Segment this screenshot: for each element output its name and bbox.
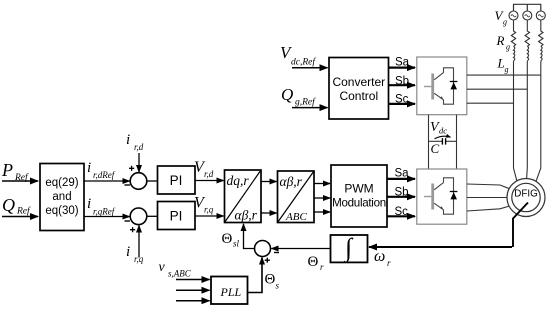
wire Sb grid gate arrow [389,84,416,86]
svg-text:r,d: r,d [204,169,214,179]
svg-text:r,dRef: r,dRef [93,170,116,180]
wire V_dc,Ref input arrow [292,67,328,69]
resistor R_g phase A [511,20,515,47]
label v_s,ABC [159,260,192,279]
svg-text:i: i [126,132,130,148]
wire v_s,ABC phase C arrow [176,300,210,302]
IGBT Q1 with diode D1 (grid-side) [424,68,457,104]
svg-text:v: v [159,260,166,275]
svg-text:dc,Ref: dc,Ref [291,57,316,68]
block Converter Control [329,58,389,120]
wire i_r,d down into summing junction S1 [138,153,140,172]
svg-text:sl: sl [233,239,240,249]
svg-text:i: i [126,244,130,260]
svg-text:eq(30): eq(30) [45,205,78,217]
grid bus top [514,4,541,11]
block PWM Modulation [331,165,387,227]
wire omega_r into integrator [369,246,512,248]
inductor L_g phase C [541,47,542,62]
wire PI2 to dq,r block [195,215,224,217]
svg-text:r,d: r,d [134,142,144,152]
svg-text:Ref: Ref [16,206,31,217]
converter U1 grid-side box [417,57,467,115]
wire Sb rotor gate arrow [387,196,415,198]
wire Sc grid gate arrow [389,103,416,105]
svg-text:ω: ω [374,248,385,265]
wire i_r,q up into summing junction S2 [138,226,140,258]
label Q_g,Ref [281,85,316,108]
wire Q_Ref input arrow [2,216,38,218]
wire i_r,qRef to summing junction [84,216,130,218]
block PLL [211,277,248,305]
inductor L_g phase A [514,47,515,62]
svg-text:s,ABC: s,ABC [168,269,192,279]
wire ABC to PWM row3 [314,211,330,213]
wire Q_g,Ref input arrow [292,107,328,109]
svg-text:Q: Q [281,85,293,104]
label i_r,q [126,244,144,264]
block dq,r / ab,r transform [225,170,262,223]
block ab,r / ABC transform [278,171,315,223]
wire P_Ref input arrow [2,180,38,182]
svg-text:C: C [431,141,440,156]
AC source G3 [536,11,545,20]
resistor R_g phase B [525,20,529,47]
wire rotor converter phase C to DFIG [467,206,510,211]
svg-text:g: g [503,18,507,27]
block PI2 [158,202,196,230]
label V_g [495,8,508,27]
block integrator [331,233,368,263]
label R_g [496,33,511,52]
AC source G2 [523,11,532,20]
wire v_s,ABC phase B arrow [176,289,210,291]
svg-text:g,Ref: g,Ref [295,97,316,108]
svg-text:PWM: PWM [344,182,373,196]
label V_r,d [194,159,214,179]
label i_r,qRef [87,196,116,217]
svg-text:ABC: ABC [285,211,307,223]
svg-text:αβ,r: αβ,r [280,174,303,189]
wire ABC to PWM row2 [314,197,330,199]
wire dq,r to ab,r row2 [261,212,277,214]
svg-text:Sa: Sa [395,168,410,180]
svg-text:and: and [52,191,71,203]
summing junction S2 [125,208,147,232]
svg-text:Control: Control [339,89,378,103]
wire v_s,ABC phase A arrow [176,279,210,281]
svg-text:Θ: Θ [222,231,233,247]
svg-text:αβ,r: αβ,r [235,208,258,223]
svg-text:PLL: PLL [220,285,242,299]
label V_dc [430,120,447,136]
svg-text:g: g [506,43,510,52]
svg-text:DFIG: DFIG [514,189,537,200]
wire grid converter phase B to grid [467,88,528,90]
svg-text:R: R [496,33,505,48]
label V_r,q [194,195,214,215]
svg-text:L: L [497,56,505,71]
svg-text:PI: PI [170,173,183,188]
IGBT Q2 with diode D2 (rotor-side) [424,178,457,214]
svg-text:Θ: Θ [265,272,276,288]
svg-text:eq(29): eq(29) [45,177,78,189]
wire i_r,dRef to summing junction [84,180,130,182]
svg-text:r,q: r,q [204,205,214,215]
wire dq,r to ab,r row1 [261,181,277,183]
svg-text:r: r [387,258,391,268]
machine DFIG [507,179,545,217]
svg-text:i: i [87,196,91,212]
svg-text:i: i [87,160,91,176]
svg-text:dq,r: dq,r [227,173,250,188]
label Q_Ref [2,195,31,217]
label omega_r [374,248,391,268]
svg-text:Modulation: Modulation [332,197,386,210]
wire S1 to PI1 [147,180,158,182]
label V_dc,Ref [280,43,316,68]
svg-text:P: P [1,160,13,180]
label L_g [497,56,509,75]
resistor R_g phase C [539,20,543,47]
wire slip angle up into dq,r block [244,224,255,249]
wire rotor converter phase B to DFIG [467,197,507,199]
wire DC link right rail [456,115,458,169]
wire PI1 to dq,r block [195,180,224,182]
svg-text:Θ: Θ [308,254,319,270]
svg-text:g: g [505,65,509,74]
capacitor C dc-link [429,138,457,144]
V_dc measurement arc arrow [435,136,451,139]
summing junction S1 [125,166,147,190]
label Theta_sl [222,231,240,249]
converter U2 rotor-side box [417,169,467,224]
wire grid phase B vertical [526,61,529,178]
svg-text:Converter: Converter [332,75,385,89]
label Theta_r [308,254,325,272]
wire rotor speed feedback to integrator [513,203,528,248]
svg-text:r,qRef: r,qRef [93,207,116,217]
block PI1 [158,166,196,194]
block eq(29) and eq(30) [40,164,84,231]
wire integrator output to S3 [272,248,331,250]
label Theta_s [265,272,280,291]
svg-text:Q: Q [2,195,15,215]
wire S2 to PI2 [147,215,158,217]
label i_r,dRef [87,160,116,180]
wire grid phase A vertical [514,61,517,181]
wire Sa rotor gate arrow [387,178,415,180]
svg-text:r: r [320,262,324,272]
wire Sc rotor gate arrow [387,215,415,217]
inductor L_g phase B [527,47,528,62]
AC source G1 [509,11,518,20]
svg-text:s: s [276,281,280,291]
summing junction S3 [255,241,280,263]
svg-text:dc: dc [439,126,447,136]
wire PLL output Theta_s to S3 [248,258,263,293]
wire Sa grid gate arrow [389,66,416,68]
label i_r,d [126,132,144,152]
label P_Ref [1,160,29,183]
wire grid converter phase C to grid [467,102,514,104]
wire rotor converter phase A to DFIG [467,184,510,189]
wire ABC to PWM row1 [314,183,330,185]
wire grid converter phase A to grid [467,74,541,76]
svg-text:PI: PI [170,209,183,224]
wire DC link left rail [428,115,430,169]
wire grid phase C vertical [536,61,541,181]
